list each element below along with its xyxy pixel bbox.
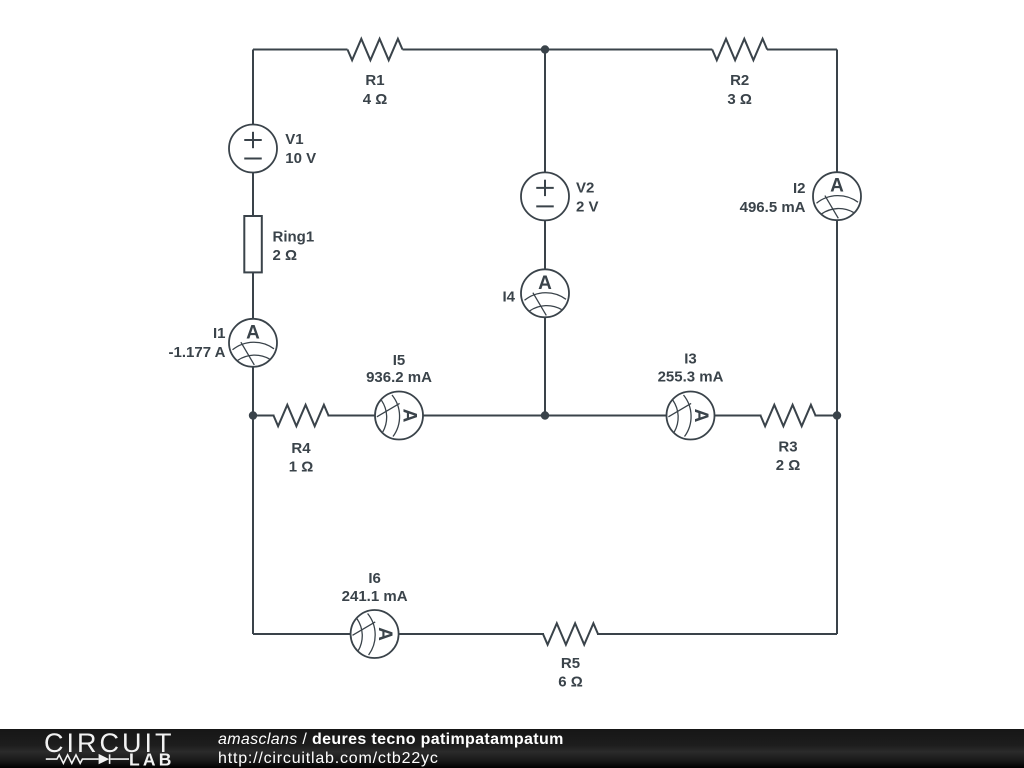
wire I6 to R5 <box>398 633 544 635</box>
node top-middle junction <box>541 45 549 53</box>
wire I2 down to bottom-right corner <box>836 219 838 634</box>
wire R4 to I5 <box>328 415 377 417</box>
svg-text:I6: I6 <box>368 570 381 587</box>
svg-text:I2: I2 <box>793 180 806 197</box>
wire middle vertical upper (node to V2) <box>544 50 546 174</box>
svg-text:-1.177 A: -1.177 A <box>169 344 226 361</box>
svg-text:496.5 mA: 496.5 mA <box>740 199 806 216</box>
svg-text:R1: R1 <box>365 72 384 89</box>
ammeter I4 <box>521 269 569 317</box>
wire top-left segment <box>253 49 348 51</box>
wire I4 to middle node <box>544 316 546 415</box>
voltage source V1 <box>229 125 277 173</box>
wire I5 to I3 <box>422 415 668 417</box>
ammeter I2 <box>813 172 861 220</box>
svg-text:2 Ω: 2 Ω <box>776 457 801 474</box>
ammeter I5 (rotated) <box>375 392 423 440</box>
svg-text:R3: R3 <box>778 439 797 456</box>
wire V2 to I4 <box>544 219 546 270</box>
svg-text:Ring1: Ring1 <box>273 229 315 246</box>
ammeter I3 (rotated) <box>667 392 715 440</box>
resistor Ring1 (box symbol) <box>244 216 261 272</box>
svg-text:255.3 mA: 255.3 mA <box>658 369 724 386</box>
resistor R1 <box>348 39 403 60</box>
svg-text:R4: R4 <box>291 440 311 457</box>
svg-text:I5: I5 <box>393 352 406 369</box>
svg-text:2 Ω: 2 Ω <box>273 247 298 264</box>
wire I1 down to bottom-left corner <box>252 366 254 634</box>
ammeter I1 <box>229 319 277 367</box>
ammeter I6 (rotated) <box>351 610 399 658</box>
svg-text:I1: I1 <box>213 325 226 342</box>
svg-text:10 V: 10 V <box>285 150 316 167</box>
wire R3 to right node <box>815 415 838 417</box>
wire left upper (to V1) <box>252 50 254 126</box>
wire Ring1 to I1 <box>252 272 254 319</box>
svg-text:http://circuitlab.com/ctb22yc: http://circuitlab.com/ctb22yc <box>218 750 439 767</box>
svg-text:3 Ω: 3 Ω <box>727 91 752 108</box>
wire right vertical upper (to I2) <box>836 50 838 174</box>
svg-text:V1: V1 <box>285 131 303 148</box>
node mid-left junction <box>249 411 257 419</box>
svg-text:amasclans / deures tecno patim: amasclans / deures tecno patimpatampatum <box>218 731 564 748</box>
CircuitLab logo resistor-diode glyph <box>46 754 129 764</box>
svg-text:1 Ω: 1 Ω <box>289 459 314 476</box>
svg-text:6 Ω: 6 Ω <box>558 674 583 691</box>
svg-text:I3: I3 <box>684 351 697 368</box>
node mid-middle junction <box>541 411 549 419</box>
wire bottom-left (to I6) <box>253 633 352 635</box>
svg-text:936.2 mA: 936.2 mA <box>366 369 432 386</box>
resistor R4 <box>274 405 329 426</box>
node mid-right junction <box>833 411 841 419</box>
wire top-right segment <box>767 49 837 51</box>
footer bar <box>0 0 1 1</box>
svg-text:2 V: 2 V <box>576 199 599 216</box>
svg-text:R5: R5 <box>561 655 580 672</box>
wire mid-left (node to R4) <box>253 415 275 417</box>
svg-text:4 Ω: 4 Ω <box>363 91 388 108</box>
wire R5 to bottom-right corner <box>597 633 837 635</box>
svg-text:241.1 mA: 241.1 mA <box>342 588 408 605</box>
svg-text:LAB: LAB <box>129 750 175 768</box>
svg-text:V2: V2 <box>576 180 594 197</box>
voltage source V2 <box>521 172 569 220</box>
wire I3 to R3 <box>714 415 762 417</box>
svg-text:R2: R2 <box>730 72 749 89</box>
svg-text:I4: I4 <box>502 289 515 306</box>
wire top-middle segment <box>403 49 713 51</box>
resistor R2 <box>712 39 767 60</box>
wire V1 to Ring1 <box>252 172 254 217</box>
resistor R3 <box>761 405 816 426</box>
resistor R5 <box>543 623 598 644</box>
